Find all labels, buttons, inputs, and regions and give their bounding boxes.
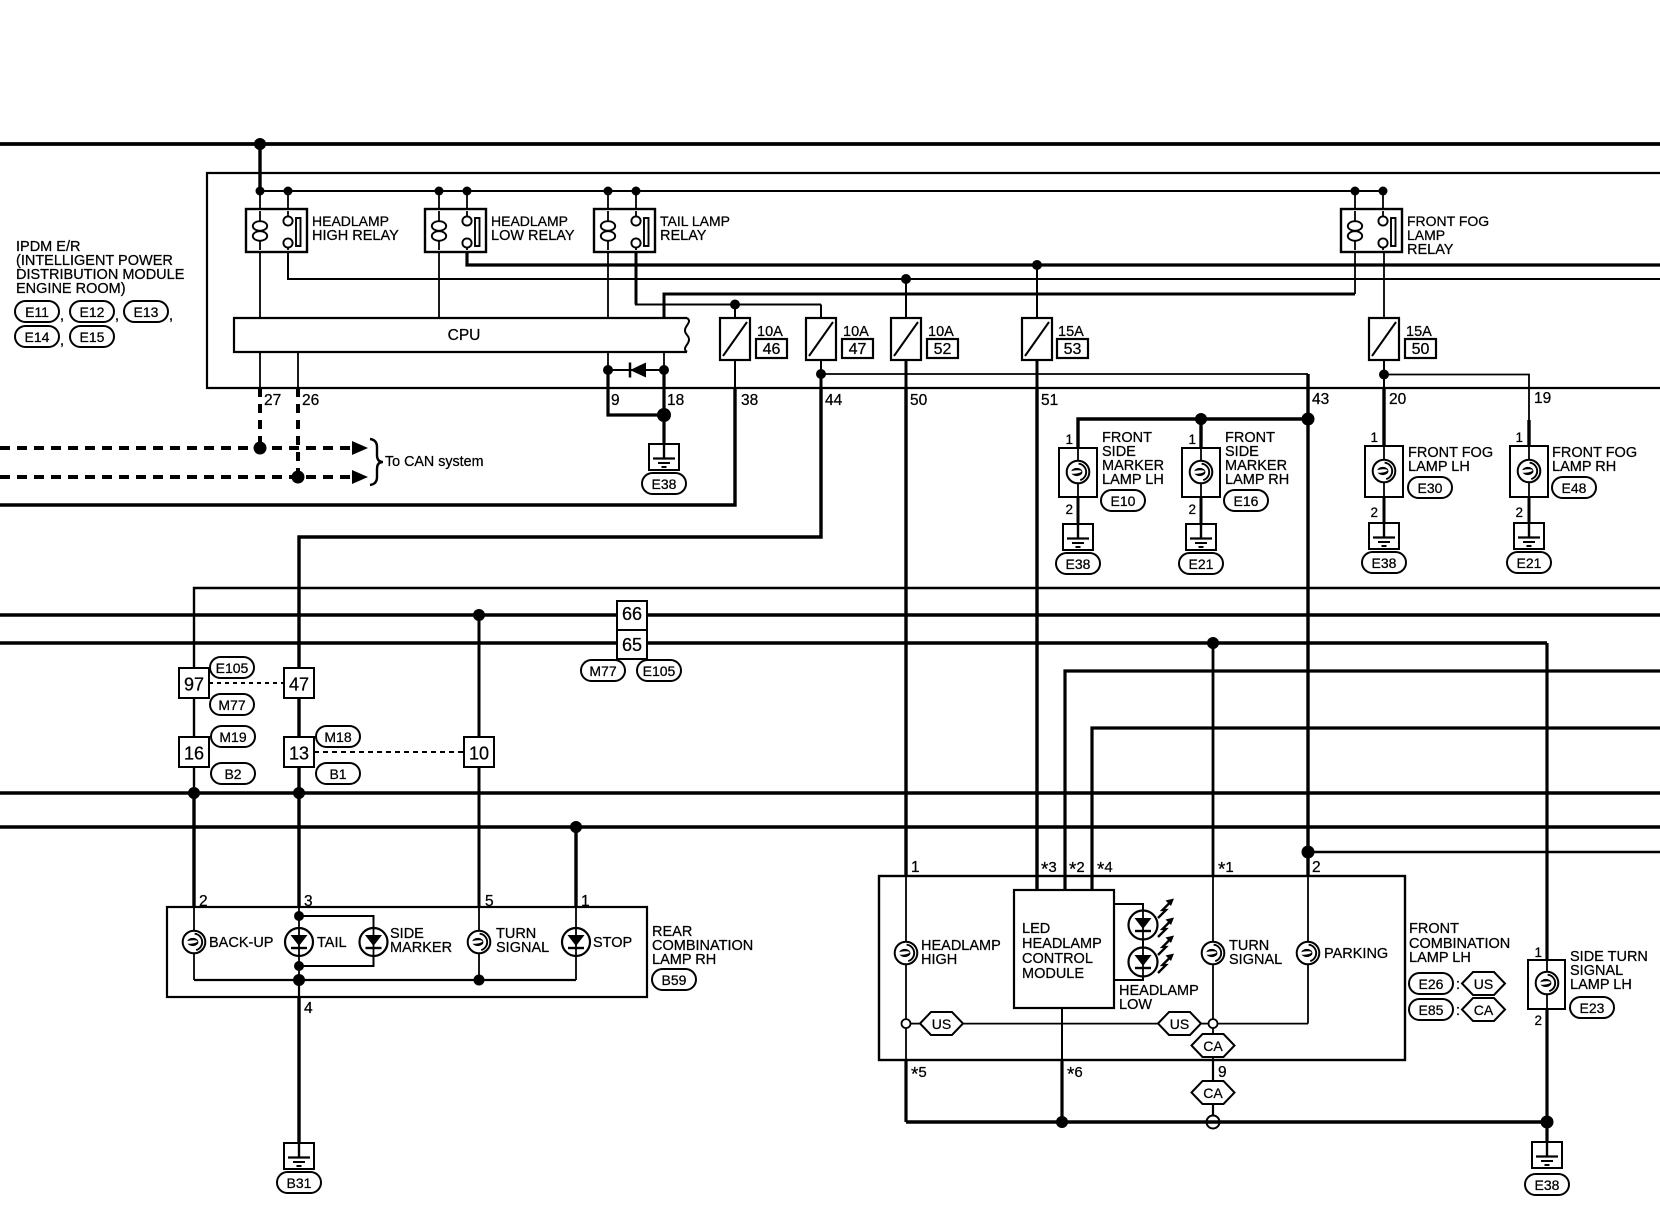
junction bus3 tail <box>293 787 305 799</box>
junction parking feed <box>1302 846 1315 859</box>
wire to CA hexagon <box>905 1028 907 1060</box>
junction fuse 46 feed <box>730 300 740 310</box>
svg-text:E26: E26 <box>1419 976 1444 992</box>
svg-text:PARKING: PARKING <box>1324 946 1388 962</box>
junction relay bus x439 <box>435 187 444 196</box>
svg-text:47: 47 <box>849 341 867 358</box>
svg-text:TAIL: TAIL <box>317 935 347 951</box>
junction relay bus x260 <box>256 187 265 196</box>
svg-text:19: 19 <box>1534 390 1551 407</box>
wire headlamp high relay coil to CPU <box>259 252 261 318</box>
svg-text:18: 18 <box>667 392 684 409</box>
svg-text:BACK-UP: BACK-UP <box>209 935 273 951</box>
svg-text:43: 43 <box>1312 391 1329 408</box>
wire fog LH to ground <box>1383 497 1386 523</box>
connector E15 <box>70 326 114 347</box>
LED HEADLAMP CONTROL MODULE box <box>1014 890 1114 1008</box>
connector 66 (in-line) <box>617 601 647 630</box>
wire side marker branch <box>1078 419 1308 448</box>
svg-text:1: 1 <box>1370 430 1378 445</box>
svg-text:1: 1 <box>1188 432 1196 447</box>
tail lamp relay box <box>594 209 655 252</box>
junction bus4 stop <box>570 821 582 833</box>
ground symbol side marker RH <box>1186 524 1216 550</box>
fuse 52 10A <box>891 318 921 360</box>
svg-text:E38: E38 <box>652 476 677 492</box>
svg-text:B1: B1 <box>329 766 346 782</box>
junction side marker RH <box>1195 413 1207 425</box>
wire tail lamp <box>298 907 300 928</box>
junction relay bus x467 <box>463 187 472 196</box>
connector E16 <box>1224 490 1268 511</box>
wire back-up lamp <box>193 907 195 931</box>
headlamp high relay switch tap wire <box>287 191 289 209</box>
connector 10 <box>464 737 494 767</box>
svg-text:50: 50 <box>910 392 928 409</box>
connector B31 <box>277 1172 321 1193</box>
connector M19 <box>211 726 255 747</box>
svg-text:1: 1 <box>1065 432 1073 447</box>
wire battery drop to relay bus <box>258 144 261 191</box>
bus wire 4 <box>0 825 1660 828</box>
headlamp high relay coil <box>259 211 261 221</box>
svg-text:M77: M77 <box>589 663 616 679</box>
bulb PARKING <box>1297 942 1320 965</box>
wire stop lamp <box>575 907 577 928</box>
connector E48 <box>1552 477 1596 498</box>
tail lamp relay switch contacts <box>635 211 637 217</box>
junction front ground <box>1541 1116 1554 1129</box>
connector M18 <box>316 726 360 747</box>
svg-text:26: 26 <box>302 392 319 409</box>
brace To CAN system <box>370 439 383 485</box>
svg-text:LAMP LH: LAMP LH <box>1409 950 1471 966</box>
svg-text:50: 50 <box>1412 341 1430 358</box>
wire CPU pin to diode node 18 <box>663 352 665 370</box>
svg-text:10A: 10A <box>843 324 869 340</box>
wire fuse 50 branch to pin 19 <box>1384 375 1529 421</box>
wire to ground E38 <box>662 415 665 444</box>
svg-text:E85: E85 <box>1419 1002 1444 1018</box>
dashed link 13-10 <box>314 751 464 753</box>
lamp FRONT SIDE MARKER RH box <box>1182 448 1220 497</box>
CPU box <box>234 318 687 352</box>
connector E21 (side marker RH ground) <box>1179 553 1223 574</box>
LED light arrows <box>1158 899 1174 919</box>
wire headlamp high relay output <box>288 252 1660 279</box>
wire CAN pin 27 (dashed) <box>258 388 262 448</box>
svg-text:CA: CA <box>1203 1038 1223 1054</box>
svg-text:LED: LED <box>1022 921 1050 937</box>
svg-text:16: 16 <box>184 744 204 764</box>
connector E105 (97) <box>210 657 254 678</box>
svg-text:RELAY: RELAY <box>1407 242 1454 258</box>
junction diode cathode <box>603 365 613 375</box>
LED 1 <box>1129 911 1158 940</box>
US connector hexagon 1 <box>910 1023 920 1025</box>
wire fuse 52 top stub <box>905 279 907 318</box>
fuse 50 15A <box>1369 318 1399 360</box>
connector 16 <box>179 737 209 767</box>
lamp FRONT SIDE MARKER LH box <box>1059 448 1097 497</box>
connector B2 <box>211 763 255 784</box>
connector E12 <box>70 301 114 322</box>
svg-text:1: 1 <box>1515 430 1523 445</box>
junction relay bus x288 <box>284 187 293 196</box>
lamp SIDE TURN SIGNAL LH box <box>1528 960 1565 1009</box>
svg-text:CONTROL: CONTROL <box>1022 951 1093 967</box>
wire fuse 47 bottom <box>820 360 822 374</box>
lamp FRONT COMBINATION LH box <box>879 876 1405 1060</box>
junction pins 9-18 ground <box>657 408 671 422</box>
connector E11 <box>15 301 59 322</box>
wire side marker LH to ground <box>1077 497 1080 524</box>
svg-text:CPU: CPU <box>448 327 481 344</box>
diode D1 <box>608 369 664 371</box>
svg-text:27: 27 <box>264 392 281 409</box>
bulb STOP <box>562 928 590 956</box>
tail lamp relay coil tap wire <box>607 191 609 209</box>
wire headlamp low feed y671 <box>1065 671 1660 890</box>
wire front pin *5 to ground bus <box>904 1060 907 1122</box>
connector E10 <box>1101 490 1145 511</box>
svg-text:,: , <box>115 308 119 324</box>
svg-text:44: 44 <box>825 392 843 409</box>
battery supply bus wire <box>0 142 1660 146</box>
tail lamp relay coil <box>607 211 609 221</box>
svg-text:E23: E23 <box>1580 1000 1605 1016</box>
wire fuse 50 to pin 20 <box>1383 375 1385 389</box>
bulb front fog LH <box>1373 460 1396 483</box>
bulb front side marker LH <box>1067 461 1090 484</box>
headlamp high relay coil tap wire <box>259 191 261 209</box>
connector E38 (side marker LH ground) <box>1056 553 1100 574</box>
wire parking ground link <box>1217 1023 1308 1025</box>
connector 97 <box>179 668 209 698</box>
junction rear bus tail <box>293 974 305 986</box>
connector B1 <box>316 763 360 784</box>
junction fuse 52 feed <box>901 274 911 284</box>
svg-text:15A: 15A <box>1058 324 1084 340</box>
svg-text:E10: E10 <box>1111 493 1136 509</box>
module feed stubs <box>1036 876 1038 890</box>
svg-text:LOW RELAY: LOW RELAY <box>491 228 575 244</box>
junction bus2 front turn <box>1207 637 1219 649</box>
connector B59 <box>652 969 696 990</box>
svg-text:E38: E38 <box>1372 555 1397 571</box>
front fog lamp relay coil tap wire <box>1354 191 1356 209</box>
svg-text:,: , <box>169 308 173 324</box>
svg-text:HEADLAMP: HEADLAMP <box>312 213 389 229</box>
connector E38 (IPDM ground) <box>642 473 686 494</box>
connector E14 <box>15 326 59 347</box>
wire pin 18 to ground <box>662 370 665 415</box>
svg-text:HEADLAMP: HEADLAMP <box>491 213 568 229</box>
connector 13 <box>284 737 314 767</box>
bus wire 3 <box>0 791 1660 794</box>
svg-text:E21: E21 <box>1189 556 1214 572</box>
junction CAN H <box>292 471 305 484</box>
US market hexagon <box>1462 972 1505 995</box>
connector E85 <box>1409 999 1453 1020</box>
headlamp high relay switch contacts <box>287 211 289 217</box>
junction CAN L <box>254 442 267 455</box>
wire CPU pin 27 stub <box>259 352 261 388</box>
relay supply bus wire <box>260 190 1383 192</box>
wire rear pin 4 to ground <box>298 980 300 997</box>
wire CPU pin 26 stub <box>297 352 299 388</box>
bulb front fog RH <box>1518 460 1541 483</box>
svg-text:2: 2 <box>1534 1013 1542 1028</box>
wire fuse 50 bottom <box>1383 360 1385 375</box>
svg-text:SIGNAL: SIGNAL <box>1229 952 1282 968</box>
wire fuse 53 to pin 51 <box>1036 360 1039 388</box>
svg-text:E15: E15 <box>80 329 105 345</box>
svg-text:E11: E11 <box>25 304 49 320</box>
svg-text:1: 1 <box>911 859 920 876</box>
wire pin 20 to fog lamp LH <box>1382 388 1385 446</box>
wire headlamp low relay output <box>467 252 1660 265</box>
wire branch line y588 <box>194 588 1660 793</box>
svg-text:MODULE: MODULE <box>1022 966 1084 982</box>
connector E30 <box>1408 477 1452 498</box>
svg-text:LAMP RH: LAMP RH <box>1552 459 1616 475</box>
headlamp high relay box <box>246 209 307 252</box>
svg-text:65: 65 <box>622 635 642 655</box>
junction relay bus x1355 <box>1351 187 1360 196</box>
lamp FRONT FOG RH box <box>1510 446 1548 497</box>
svg-text:To CAN system: To CAN system <box>385 454 484 470</box>
wire tail lamp relay output <box>635 251 638 305</box>
svg-text:MARKER: MARKER <box>390 940 452 956</box>
junction diode anode <box>659 365 669 375</box>
svg-text:B2: B2 <box>224 766 241 782</box>
junction battery bus <box>254 138 266 150</box>
fuse 46 10A <box>720 318 750 360</box>
svg-text:E21: E21 <box>1517 555 1542 571</box>
svg-text:M18: M18 <box>324 729 351 745</box>
svg-text:15A: 15A <box>1406 324 1432 340</box>
wire pin 43 feed <box>1306 374 1309 876</box>
bulb SIDE MARKER (rear) <box>360 928 388 956</box>
bus wire 2 <box>0 641 1547 644</box>
wire pin 19 to fog lamp RH <box>1527 420 1530 446</box>
wire fuse 52 to pin 50 <box>905 360 908 388</box>
connector E26 <box>1409 973 1453 994</box>
wire rear pin 1 drop <box>574 827 577 907</box>
svg-text:1: 1 <box>1534 945 1542 960</box>
wire module ground *6 <box>1061 1008 1063 1060</box>
dashed link 97-47 <box>209 682 284 684</box>
fuse 53 15A <box>1022 318 1052 360</box>
svg-text:,: , <box>60 333 64 349</box>
front fog lamp relay box <box>1341 209 1402 252</box>
connector E38 (front ground) <box>1525 1174 1569 1195</box>
wire pin 44 feed <box>299 388 821 907</box>
svg-text:3: 3 <box>304 893 313 910</box>
LED 2 <box>1129 948 1158 977</box>
node CA option on ground bus <box>1207 1116 1220 1129</box>
front fog lamp relay coil <box>1354 211 1356 221</box>
svg-text:LAMP LH: LAMP LH <box>1408 459 1470 475</box>
svg-text:M77: M77 <box>218 697 245 713</box>
wire CAN H line <box>0 475 353 479</box>
wire tail lamp relay coil to CPU <box>607 252 609 318</box>
junction bus3 backup <box>188 787 200 799</box>
wire fuse 46 top stub <box>734 305 736 319</box>
svg-text:M19: M19 <box>219 729 246 745</box>
wire front parking feed y852 <box>1308 851 1660 853</box>
wire fuse 46 to pin 38 <box>734 360 736 388</box>
svg-text:53: 53 <box>1064 341 1082 358</box>
bulb BACK-UP <box>183 931 206 954</box>
ground symbol E38 (IPDM) <box>649 444 679 470</box>
US connector hexagon 2 <box>1158 1012 1201 1035</box>
wire turn signal lamp (rear) <box>478 907 480 931</box>
svg-text:,: , <box>60 308 64 324</box>
svg-text:10A: 10A <box>928 324 954 340</box>
bulb TURN SIGNAL (front) <box>1202 942 1225 965</box>
node US option left <box>902 1019 911 1028</box>
svg-text:47: 47 <box>289 675 309 695</box>
svg-text:66: 66 <box>622 604 642 624</box>
junction fuse 50 / pin 19 branch <box>1379 370 1389 380</box>
junction fuse 53 feed <box>1032 260 1042 270</box>
svg-text:HIGH RELAY: HIGH RELAY <box>312 228 399 244</box>
wire to ground E38 (front) <box>1545 1122 1548 1142</box>
wire rear internal ground bus <box>194 979 576 981</box>
wire headlamp low relay coil to CPU <box>438 252 440 318</box>
svg-text::: : <box>1456 977 1460 993</box>
svg-text:10A: 10A <box>757 324 783 340</box>
svg-text:US: US <box>932 1016 951 1032</box>
svg-text:51: 51 <box>1041 392 1058 409</box>
svg-text:FRONT: FRONT <box>1409 921 1459 937</box>
front fog lamp relay switch contacts <box>1382 211 1384 217</box>
bulb front side marker RH <box>1190 461 1213 484</box>
svg-text:E12: E12 <box>80 304 105 320</box>
svg-text:CA: CA <box>1474 1002 1494 1018</box>
wire pin 38 feed <box>0 388 735 505</box>
svg-text:4: 4 <box>304 1000 313 1017</box>
junction relay bus x608 <box>604 187 613 196</box>
junction bus1 turn signal <box>473 609 485 621</box>
svg-text:46: 46 <box>763 341 781 358</box>
svg-text:9: 9 <box>611 392 620 409</box>
connector 65 (in-line) <box>617 630 647 659</box>
svg-text:52: 52 <box>934 341 952 358</box>
svg-text:CA: CA <box>1203 1085 1223 1101</box>
svg-text:ENGINE ROOM): ENGINE ROOM) <box>16 281 126 297</box>
ground symbol B31 <box>284 1143 314 1169</box>
IPDM E/R box <box>207 173 1660 388</box>
wire pin 51 to module <box>1035 388 1038 890</box>
junction rear bus turn <box>474 975 485 986</box>
ground symbol front E38 <box>1532 1142 1562 1168</box>
svg-text:97: 97 <box>184 675 204 695</box>
wire parking bulb <box>1307 852 1309 942</box>
bulb TURN SIGNAL (rear) <box>468 931 491 954</box>
headlamp low relay switch tap wire <box>466 191 468 209</box>
CA market hexagon <box>1462 998 1505 1021</box>
wire US option link <box>963 1023 1158 1025</box>
wire fuse 47 to pin 44 <box>820 374 823 388</box>
ground symbol side marker LH <box>1063 524 1093 550</box>
tail lamp relay switch tap wire <box>635 191 637 209</box>
svg-text:LAMP LH: LAMP LH <box>1570 977 1632 993</box>
wire headlamp low feed y728 <box>1092 728 1660 890</box>
wire front fog relay output to fuse 50 <box>1383 252 1385 318</box>
wire fuse 47 branch to pin 43 <box>821 373 1308 375</box>
svg-text:2: 2 <box>1188 502 1196 517</box>
svg-text:13: 13 <box>289 744 309 764</box>
svg-text:10: 10 <box>469 744 489 764</box>
svg-text:B59: B59 <box>662 972 687 988</box>
svg-text:B31: B31 <box>287 1175 312 1191</box>
svg-text:TAIL LAMP: TAIL LAMP <box>660 213 730 229</box>
svg-text:US: US <box>1170 1016 1189 1032</box>
svg-text:E48: E48 <box>1562 480 1587 496</box>
svg-text:LOW: LOW <box>1119 997 1152 1013</box>
junction fuse 47 / pin 43 branch <box>816 369 826 379</box>
svg-text:2: 2 <box>1370 505 1378 520</box>
wire side marker RH drop <box>1199 419 1202 448</box>
wire pin 9 to ground loop <box>608 370 664 415</box>
bus wire 1 <box>0 613 1660 616</box>
CA connector hexagon (below) <box>1192 1081 1235 1104</box>
junction module ground <box>1056 1116 1068 1128</box>
headlamp low relay coil <box>438 211 440 221</box>
front fog lamp relay switch tap wire <box>1382 191 1384 209</box>
svg-text:E13: E13 <box>134 304 159 320</box>
svg-text:E30: E30 <box>1418 480 1443 496</box>
svg-text:HEADLAMP: HEADLAMP <box>1022 936 1102 952</box>
wire pin 50 to front lamp pin 1 <box>904 388 907 876</box>
junction tail top <box>294 911 304 921</box>
svg-text:20: 20 <box>1389 391 1407 408</box>
svg-text:SIGNAL: SIGNAL <box>496 940 549 956</box>
wire fog RH to ground <box>1528 497 1531 523</box>
bulb HEADLAMP HIGH <box>895 942 918 965</box>
junction relay bus x1383 <box>1379 187 1388 196</box>
svg-text::: : <box>1456 1003 1460 1019</box>
wire CPU pin to diode node 9 <box>607 352 609 370</box>
svg-text:LAMP: LAMP <box>1407 227 1445 243</box>
svg-text:1: 1 <box>581 893 590 910</box>
svg-text:US: US <box>1474 976 1493 992</box>
wire LED loop <box>1114 904 1143 911</box>
svg-text:2: 2 <box>1515 505 1523 520</box>
wire front pin 9 <box>1212 1060 1214 1081</box>
svg-text:38: 38 <box>741 392 758 409</box>
svg-text:2: 2 <box>1312 859 1321 876</box>
wire side turn feed drop <box>1545 643 1548 960</box>
svg-text:9: 9 <box>1218 1064 1227 1081</box>
wire turn signal drop x479 <box>478 615 481 907</box>
node US option right <box>1209 1019 1218 1028</box>
connector M77 (bus) <box>581 660 625 681</box>
wire fuse 53 top stub <box>1036 265 1038 318</box>
svg-text:E105: E105 <box>643 663 676 679</box>
wire side marker RH to ground <box>1200 497 1203 524</box>
svg-text:E105: E105 <box>216 660 249 676</box>
svg-text:E38: E38 <box>1066 556 1091 572</box>
junction tail bottom <box>294 961 304 971</box>
junction relay bus x636 <box>632 187 641 196</box>
wire front turn bulb <box>1212 876 1214 942</box>
connector E105 (bus) <box>637 660 681 681</box>
svg-text:STOP: STOP <box>593 935 632 951</box>
